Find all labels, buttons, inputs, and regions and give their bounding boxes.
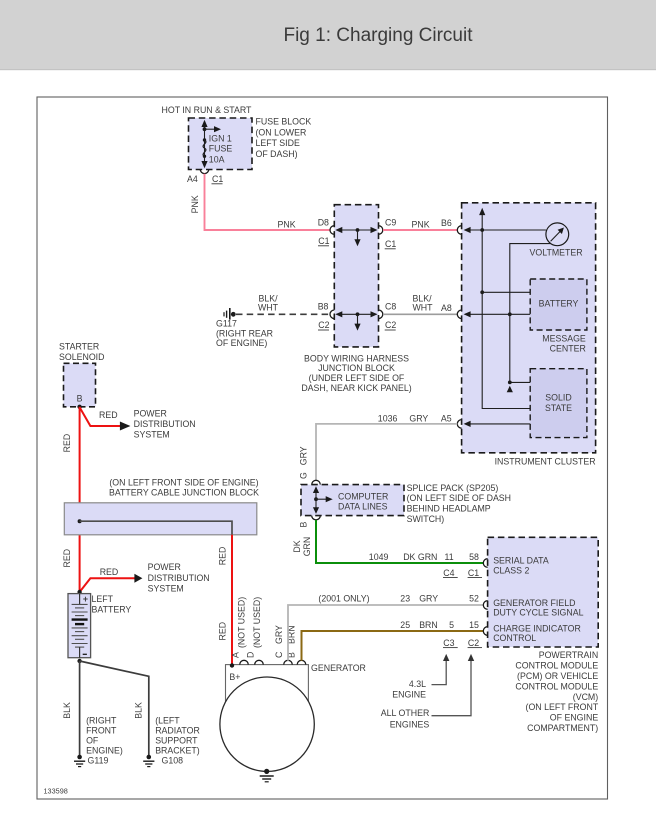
svg-text:(ON LEFT SIDE OF DASH: (ON LEFT SIDE OF DASH: [407, 493, 511, 503]
connector B: [287, 625, 306, 664]
svg-text:B: B: [77, 393, 83, 403]
svg-text:C4: C4: [443, 568, 454, 578]
connector C8 / C2: [379, 302, 397, 331]
svg-text:BODY WIRING HARNESS: BODY WIRING HARNESS: [304, 353, 409, 363]
svg-text:BRN: BRN: [419, 620, 438, 630]
svg-text:15: 15: [469, 620, 479, 630]
svg-text:BATTERY: BATTERY: [539, 299, 579, 309]
svg-text:+: +: [83, 594, 88, 604]
wire DK GRN splice to PCM: [292, 520, 483, 578]
svg-text:PNK: PNK: [412, 219, 430, 229]
svg-text:GRY: GRY: [409, 413, 428, 423]
svg-text:A8: A8: [441, 303, 452, 313]
svg-text:RED: RED: [99, 410, 118, 420]
wire RED junction block to generator B+: [217, 535, 232, 666]
svg-text:PNK: PNK: [190, 195, 200, 213]
svg-text:BEHIND HEADLAMP: BEHIND HEADLAMP: [407, 504, 491, 514]
connector D (not used): [246, 597, 264, 665]
svg-text:IGN 1: IGN 1: [209, 134, 232, 144]
generator ground: [260, 769, 274, 782]
svg-text:OF ENGINE): OF ENGINE): [216, 338, 267, 348]
svg-text:BLK: BLK: [134, 702, 144, 719]
wire BLK battery to G119: [62, 661, 80, 755]
svg-text:G: G: [298, 472, 308, 479]
svg-text:(PCM) OR VEHICLE: (PCM) OR VEHICLE: [517, 671, 598, 681]
svg-text:STARTER: STARTER: [59, 341, 99, 351]
svg-text:DATA LINES: DATA LINES: [338, 502, 388, 512]
svg-text:RED: RED: [217, 547, 227, 566]
solid state box: [530, 369, 587, 438]
svg-text:FUSE: FUSE: [209, 144, 233, 154]
svg-text:(RIGHT: (RIGHT: [86, 715, 117, 725]
wire BLK/WHT junction block to cluster A8: [383, 293, 457, 314]
svg-text:ENGINES: ENGINES: [390, 719, 430, 729]
label SPLICE PACK (SP205): [407, 483, 511, 524]
svg-text:A: A: [230, 652, 240, 658]
svg-text:FUSE BLOCK: FUSE BLOCK: [256, 117, 312, 127]
svg-text:POWER: POWER: [148, 562, 181, 572]
body wiring harness junction block box: [334, 205, 378, 347]
svg-text:B: B: [298, 522, 308, 528]
svg-text:GRY: GRY: [274, 625, 284, 644]
callout ALL OTHER ENGINES: [381, 654, 474, 729]
svg-text:ENGINE): ENGINE): [86, 745, 123, 755]
svg-text:C2: C2: [385, 320, 396, 330]
connector D8 / C1: [318, 217, 335, 246]
svg-text:58: 58: [469, 552, 479, 562]
svg-text:INSTRUMENT CLUSTER: INSTRUMENT CLUSTER: [495, 456, 596, 466]
svg-text:POWERTRAIN: POWERTRAIN: [539, 650, 598, 660]
svg-text:COMPUTER: COMPUTER: [338, 491, 388, 501]
svg-text:OF DASH): OF DASH): [256, 149, 298, 159]
svg-text:CENTER: CENTER: [550, 344, 586, 354]
starter solenoid: [59, 341, 104, 409]
svg-text:DK: DK: [292, 540, 302, 552]
svg-text:A4: A4: [187, 174, 198, 184]
wire RED solenoid down through junction block to battery: [62, 407, 80, 592]
svg-text:1036: 1036: [378, 413, 398, 423]
wire A8 row inside cluster: [464, 311, 531, 317]
wire bus to battery box: [482, 291, 530, 293]
battery cable junction block: [64, 478, 259, 535]
splice pack SP205: [301, 480, 404, 520]
svg-text:BRACKET): BRACKET): [155, 745, 200, 755]
wire PNK junction block to cluster B6: [383, 218, 457, 230]
svg-text:4.3L: 4.3L: [409, 679, 426, 689]
svg-text:SOLID: SOLID: [545, 393, 571, 403]
svg-text:WHT: WHT: [413, 303, 434, 313]
svg-text:CLASS 2: CLASS 2: [493, 566, 529, 576]
header bar: [0, 0, 656, 70]
svg-text:(ON LOWER: (ON LOWER: [256, 127, 307, 137]
wire BLK battery to G108: [80, 661, 149, 755]
bus bar inside battery cable junction block: [78, 519, 232, 535]
svg-text:CONTROL MODULE: CONTROL MODULE: [515, 660, 598, 670]
svg-text:B6: B6: [441, 218, 452, 228]
svg-text:C1: C1: [212, 174, 223, 184]
svg-text:52: 52: [469, 593, 479, 603]
connector B6 at cluster: [457, 226, 461, 235]
svg-text:G108: G108: [162, 755, 184, 765]
ground G119: [74, 715, 123, 766]
svg-text:LEFT: LEFT: [92, 594, 114, 604]
generator body: [220, 663, 366, 771]
svg-text:CHARGE INDICATOR: CHARGE INDICATOR: [493, 623, 581, 633]
wire A5 row inside cluster: [464, 421, 531, 427]
svg-text:GRN: GRN: [302, 537, 312, 557]
svg-text:BATTERY: BATTERY: [92, 604, 132, 614]
svg-text:SPLICE PACK (SP205): SPLICE PACK (SP205): [407, 483, 499, 493]
svg-text:DUTY CYCLE SIGNAL: DUTY CYCLE SIGNAL: [493, 607, 583, 617]
svg-text:STATE: STATE: [545, 403, 572, 413]
svg-text:SYSTEM: SYSTEM: [148, 584, 184, 594]
svg-text:OF ENGINE: OF ENGINE: [550, 713, 599, 723]
label BODY WIRING HARNESS JUNCTION BLOCK: [301, 353, 411, 393]
svg-text:5: 5: [449, 620, 454, 630]
ground G108: [143, 715, 200, 766]
svg-text:(ON LEFT FRONT: (ON LEFT FRONT: [526, 702, 599, 712]
svg-text:FRONT: FRONT: [86, 726, 117, 736]
svg-text:D: D: [246, 652, 256, 658]
battery telltale box: [530, 279, 587, 330]
svg-text:G117: G117: [216, 318, 237, 328]
connector C9 / C1: [379, 217, 397, 249]
svg-text:(NOT USED): (NOT USED): [252, 597, 262, 648]
fuse element IGN 1 FUSE 10A: [203, 134, 233, 165]
svg-text:SYSTEM: SYSTEM: [134, 429, 170, 439]
svg-text:B8: B8: [318, 302, 329, 312]
svg-text:C1: C1: [468, 568, 479, 578]
svg-text:GRY: GRY: [419, 593, 438, 603]
wire RED branch battery to power distribution: [80, 562, 210, 593]
wire BLK/WHT dashed G117 to junction block: [236, 293, 330, 314]
svg-text:PNK: PNK: [278, 219, 296, 229]
svg-text:ALL OTHER: ALL OTHER: [381, 708, 430, 718]
svg-text:(UNDER LEFT SIDE OF: (UNDER LEFT SIDE OF: [309, 373, 405, 383]
label MESSAGE CENTER: [542, 333, 586, 353]
PCM block: [483, 537, 598, 647]
wire pink row inside junction block: [335, 227, 377, 246]
svg-text:LEFT SIDE: LEFT SIDE: [256, 138, 300, 148]
svg-text:OF: OF: [86, 736, 99, 746]
connector A8 at cluster: [457, 310, 461, 319]
svg-text:JUNCTION BLOCK: JUNCTION BLOCK: [318, 363, 395, 373]
battery LEFT BATTERY: [68, 590, 131, 663]
svg-text:B+: B+: [229, 672, 240, 682]
svg-text:ENGINE: ENGINE: [392, 689, 426, 699]
svg-text:(LEFT: (LEFT: [155, 715, 180, 725]
svg-text:RADIATOR: RADIATOR: [155, 726, 200, 736]
wire GRY generator to PCM (2001 only): [288, 593, 483, 660]
svg-text:DISTRIBUTION: DISTRIBUTION: [134, 419, 196, 429]
wire cluster B6 to voltmeter: [464, 227, 546, 233]
instrument cluster box: [462, 203, 596, 453]
connector B8 / C2: [318, 302, 335, 331]
svg-text:23: 23: [400, 593, 410, 603]
connector A5 at cluster: [457, 420, 461, 429]
svg-text:(NOT USED): (NOT USED): [237, 597, 247, 648]
svg-text:C1: C1: [385, 239, 396, 249]
svg-text:DK GRN: DK GRN: [403, 552, 437, 562]
svg-text:C9: C9: [385, 217, 396, 227]
svg-text:G119: G119: [88, 755, 109, 765]
wire PNK fuse to junction block: [190, 174, 330, 230]
wire fuse block internal bus: [201, 120, 221, 169]
svg-text:C: C: [274, 651, 284, 658]
svg-text:RED: RED: [62, 549, 72, 568]
label FUSE BLOCK (ON LOWER LEFT SIDE OF DASH): [256, 117, 312, 159]
frame border: [37, 97, 608, 799]
connector A4 / C1 at fuse exit: [187, 169, 223, 184]
svg-text:Fig 1: Charging Circuit: Fig 1: Charging Circuit: [283, 25, 473, 46]
svg-text:GENERATOR: GENERATOR: [311, 663, 366, 673]
svg-text:A5: A5: [441, 413, 452, 423]
svg-text:WHT: WHT: [258, 303, 279, 313]
svg-text:C1: C1: [318, 236, 329, 246]
wire BRN generator to PCM: [302, 620, 484, 661]
svg-text:(2001 ONLY): (2001 ONLY): [318, 593, 369, 603]
svg-text:VOLTMETER: VOLTMETER: [530, 248, 583, 258]
svg-text:RED: RED: [217, 622, 227, 641]
connector A (not used): [230, 597, 248, 665]
svg-text:MESSAGE: MESSAGE: [542, 333, 586, 343]
svg-text:SUPPORT: SUPPORT: [155, 736, 198, 746]
svg-text:BLK: BLK: [62, 702, 72, 719]
svg-text:(RIGHT REAR: (RIGHT REAR: [216, 328, 273, 338]
wire blk row inside junction block: [335, 311, 377, 330]
svg-text:RED: RED: [62, 434, 72, 453]
wire cluster internal bus vertical: [479, 208, 530, 409]
svg-text:HOT IN RUN & START: HOT IN RUN & START: [162, 105, 253, 115]
wire GRY splice pack to cluster A5: [298, 413, 457, 480]
svg-text:SERIAL DATA: SERIAL DATA: [493, 555, 549, 565]
voltmeter: [530, 223, 583, 258]
connector C: [274, 625, 293, 665]
svg-text:COMPARTMENT): COMPARTMENT): [527, 723, 598, 733]
svg-text:DISTRIBUTION: DISTRIBUTION: [148, 573, 210, 583]
wire RED solenoid to power distribution: [80, 407, 196, 439]
svg-text:(VCM): (VCM): [573, 692, 598, 702]
svg-text:POWER: POWER: [134, 409, 167, 419]
ground G117: [216, 308, 273, 348]
svg-text:25: 25: [400, 620, 410, 630]
svg-text:D8: D8: [318, 217, 329, 227]
svg-text:BATTERY CABLE JUNCTION BLOCK: BATTERY CABLE JUNCTION BLOCK: [109, 487, 259, 497]
svg-text:11: 11: [445, 552, 454, 562]
svg-text:CONTROL: CONTROL: [493, 633, 536, 643]
svg-text:10A: 10A: [209, 155, 225, 165]
fuse block box: [189, 118, 253, 170]
svg-text:C8: C8: [385, 302, 396, 312]
svg-text:CONTROL MODULE: CONTROL MODULE: [515, 681, 598, 691]
svg-text:SOLENOID: SOLENOID: [59, 352, 104, 362]
svg-text:SWITCH): SWITCH): [407, 514, 445, 524]
svg-text:(ON LEFT FRONT SIDE OF ENGINE): (ON LEFT FRONT SIDE OF ENGINE): [109, 478, 258, 488]
callout 4.3L ENGINE: [392, 654, 449, 699]
svg-text:133598: 133598: [44, 787, 68, 796]
svg-text:C2: C2: [468, 638, 479, 648]
svg-text:GENERATOR FIELD: GENERATOR FIELD: [493, 598, 575, 608]
svg-text:C2: C2: [318, 320, 329, 330]
svg-text:C3: C3: [443, 638, 454, 648]
svg-text:GRY: GRY: [298, 446, 308, 465]
svg-text:1049: 1049: [369, 552, 389, 562]
wire voltmeter to solid state: [507, 244, 551, 393]
label POWERTRAIN CONTROL MODULE: [515, 650, 598, 733]
svg-text:DASH, NEAR KICK PANEL): DASH, NEAR KICK PANEL): [301, 383, 411, 393]
svg-text:RED: RED: [100, 567, 119, 577]
